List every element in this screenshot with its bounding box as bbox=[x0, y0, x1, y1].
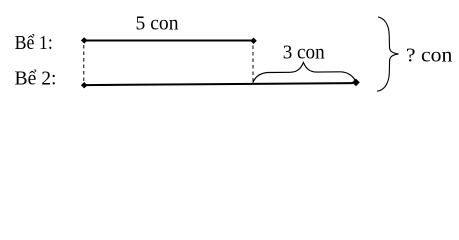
node diamond bar2 left bbox=[81, 82, 88, 88]
svg-text:? con: ? con bbox=[406, 46, 453, 67]
wire dashed right bbox=[252, 46, 254, 84]
wire dashed left bbox=[83, 45, 85, 84]
svg-text:Bể 2:: Bể 2: bbox=[15, 69, 57, 90]
svg-text:5 con: 5 con bbox=[136, 14, 179, 35]
svg-text:3 con: 3 con bbox=[283, 43, 325, 64]
node diamond bar1 left bbox=[81, 37, 88, 43]
node diamond bar1 right bbox=[250, 38, 257, 44]
wire bar2 bbox=[84, 83, 353, 85]
brace big right bbox=[377, 17, 398, 91]
node diamond bar2 right bbox=[352, 79, 360, 87]
wire bar1 bbox=[84, 40, 254, 42]
svg-text:Bể 1:: Bể 1: bbox=[15, 33, 53, 54]
brace horizontal over 3 con bbox=[252, 63, 356, 85]
